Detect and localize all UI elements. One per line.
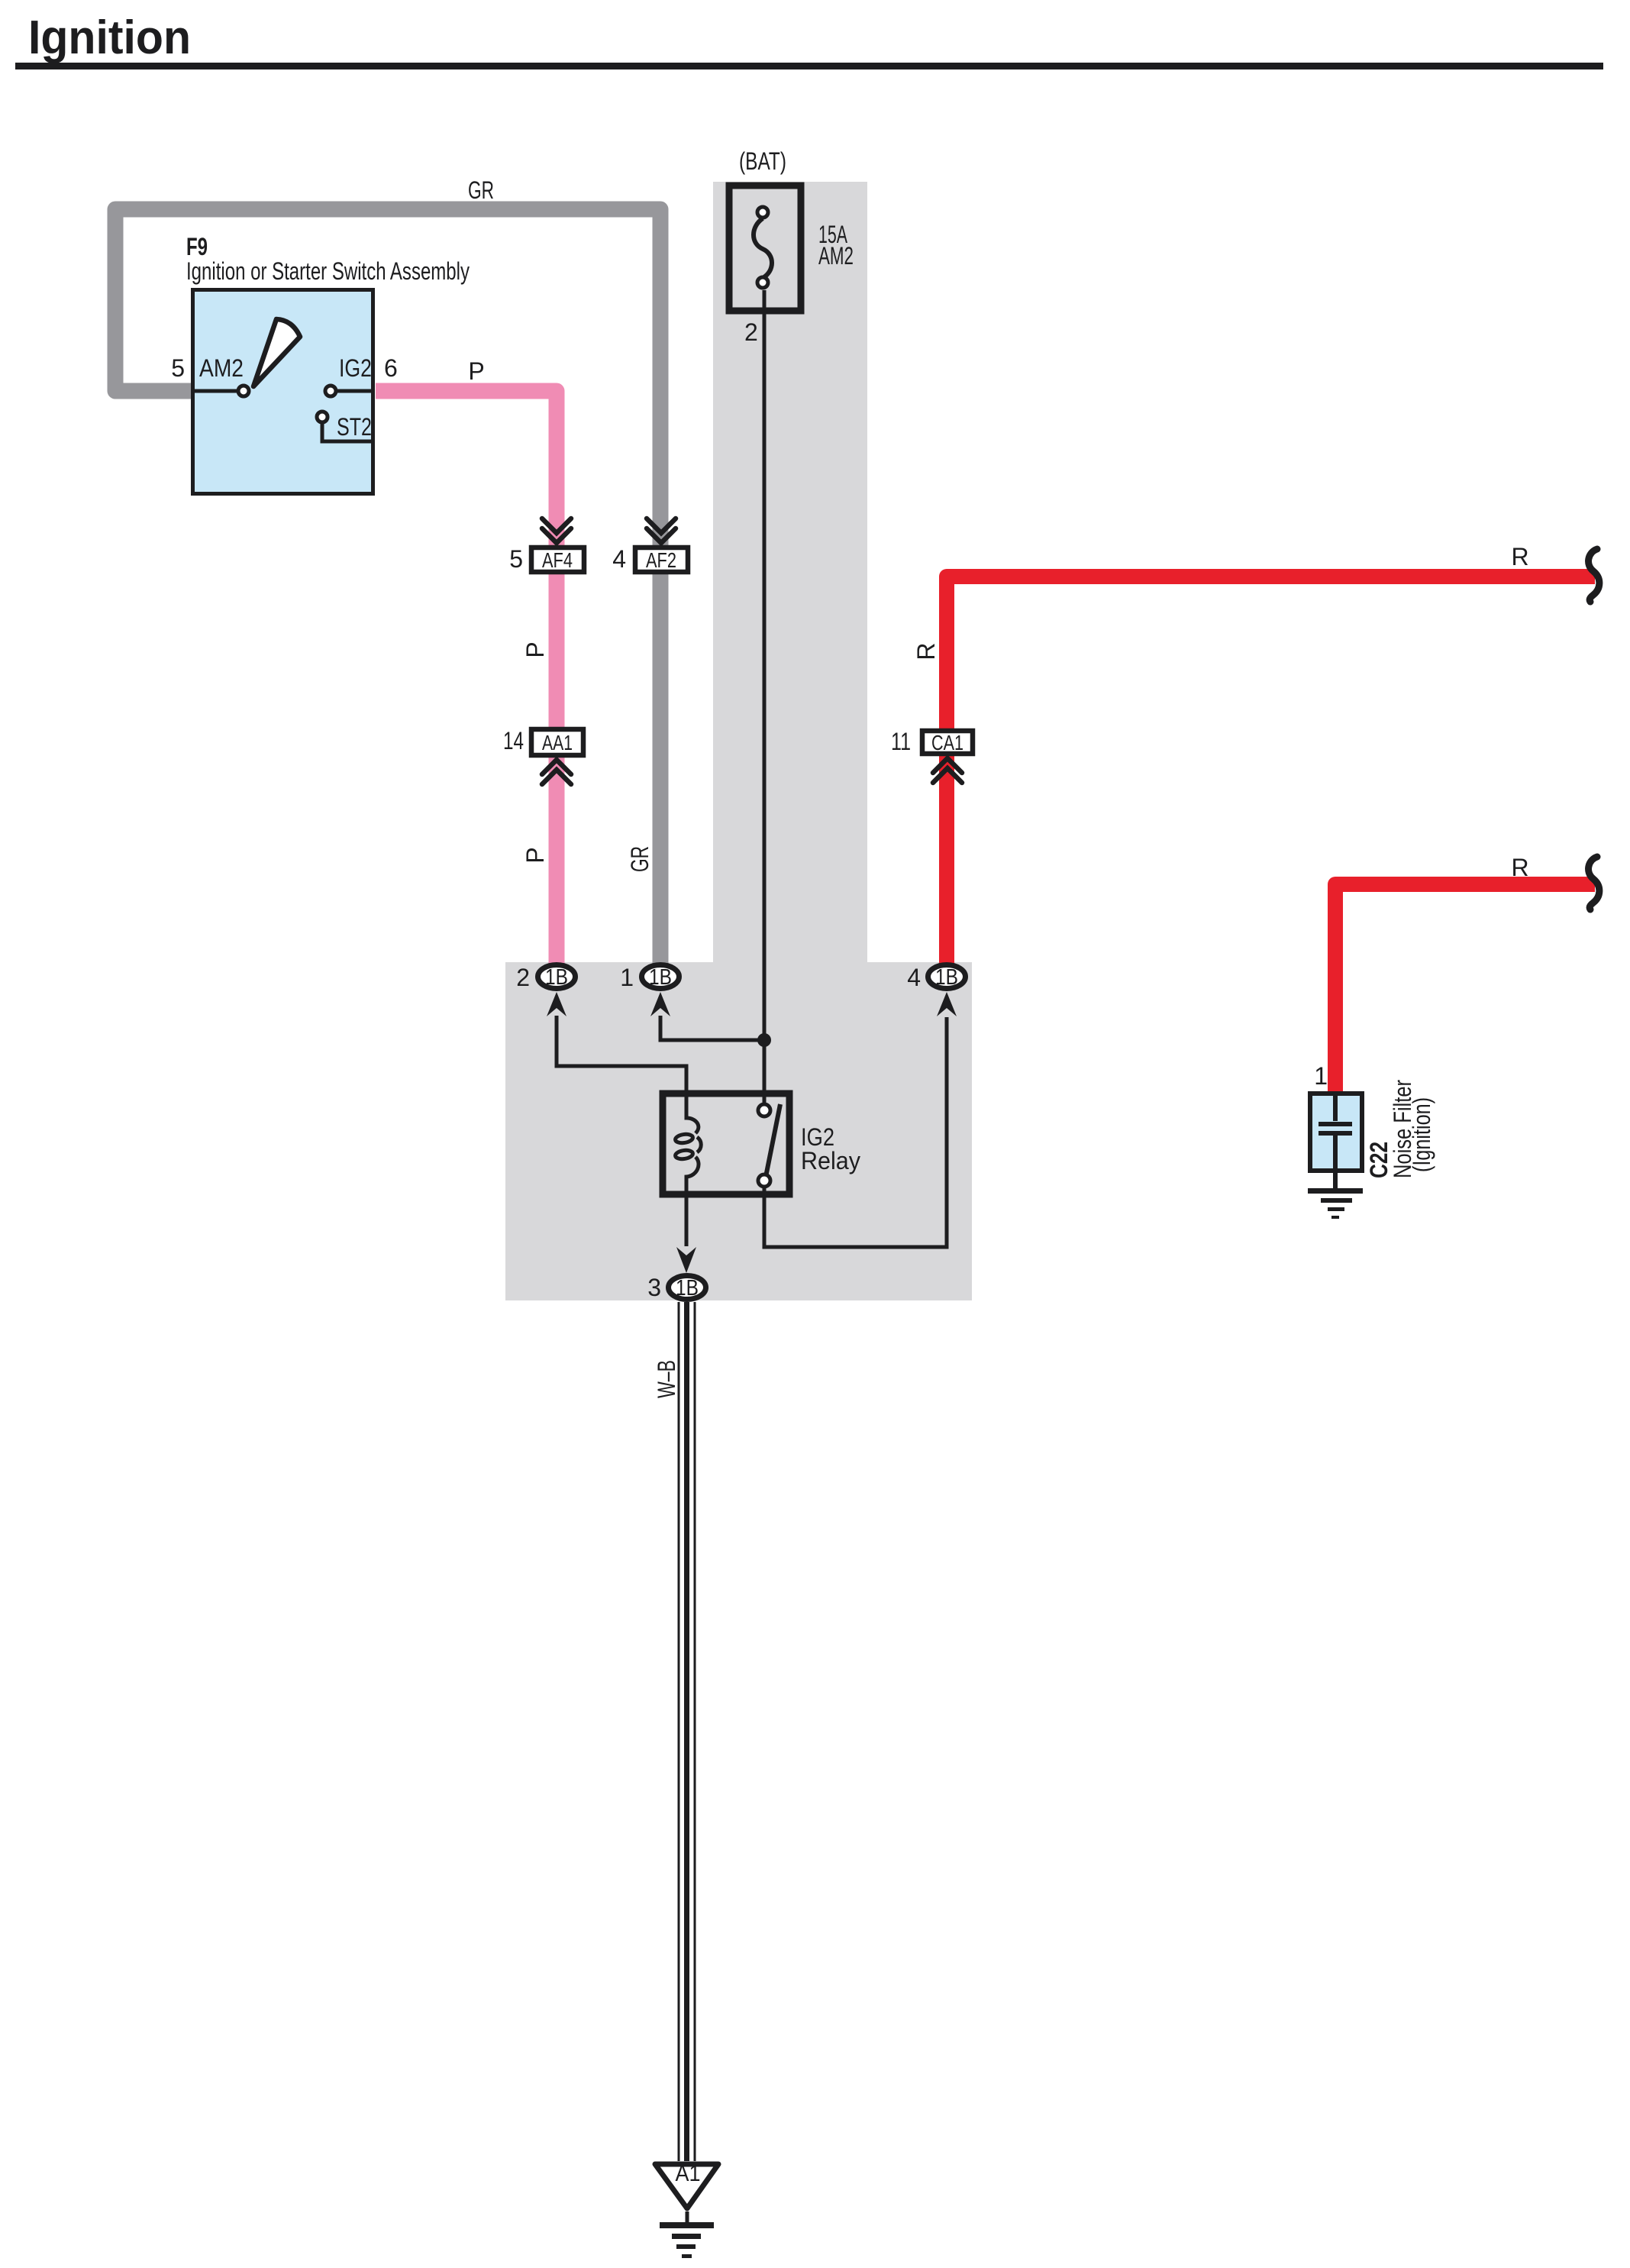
svg-text:GR: GR (468, 176, 494, 204)
svg-text:4: 4 (907, 964, 921, 991)
svg-text:2: 2 (744, 318, 758, 346)
svg-text:A1: A1 (676, 2161, 701, 2186)
svg-text:CA1: CA1 (931, 731, 963, 754)
svg-text:IG2: IG2 (339, 354, 372, 382)
svg-text:1B: 1B (935, 965, 958, 990)
svg-text:P: P (521, 641, 549, 657)
svg-text:5: 5 (509, 545, 523, 573)
svg-text:R: R (912, 642, 940, 660)
svg-text:(BAT): (BAT) (739, 147, 786, 175)
svg-text:R: R (1511, 854, 1528, 881)
svg-text:4: 4 (612, 545, 626, 573)
svg-text:P: P (521, 847, 549, 863)
svg-text:AF2: AF2 (646, 548, 676, 572)
svg-text:Ignition: Ignition (28, 11, 191, 64)
svg-text:11: 11 (891, 728, 911, 755)
svg-text:5: 5 (171, 354, 185, 382)
svg-text:ST2: ST2 (337, 413, 372, 441)
svg-text:GR: GR (626, 846, 654, 872)
svg-text:F9: F9 (186, 233, 208, 260)
svg-text:W–B: W–B (653, 1360, 680, 1398)
svg-text:AA1: AA1 (542, 731, 573, 754)
svg-text:AF4: AF4 (542, 548, 573, 572)
svg-text:AM2: AM2 (199, 354, 244, 382)
svg-text:AM2: AM2 (818, 242, 854, 270)
svg-text:Relay: Relay (801, 1147, 860, 1174)
svg-text:1: 1 (1314, 1062, 1328, 1090)
svg-text:3: 3 (647, 1274, 661, 1301)
svg-text:Ignition or Starter Switch Ass: Ignition or Starter Switch Assembly (186, 257, 470, 285)
svg-text:6: 6 (384, 354, 398, 382)
svg-text:1: 1 (620, 964, 634, 991)
svg-text:1B: 1B (676, 1276, 699, 1300)
svg-text:14: 14 (503, 727, 524, 754)
svg-text:1B: 1B (545, 965, 568, 990)
svg-text:R: R (1511, 543, 1528, 570)
svg-text:2: 2 (516, 964, 530, 991)
svg-text:(Ignition): (Ignition) (1408, 1097, 1435, 1172)
svg-text:1B: 1B (649, 965, 672, 990)
svg-text:P: P (468, 357, 484, 385)
